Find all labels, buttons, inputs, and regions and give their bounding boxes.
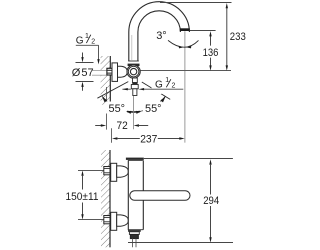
svg-text:233: 233: [230, 31, 246, 43]
svg-text:G: G: [155, 79, 163, 90]
svg-text:294: 294: [203, 195, 219, 207]
svg-text:237: 237: [140, 134, 157, 146]
svg-text:G: G: [76, 35, 84, 46]
svg-text:3°: 3°: [156, 30, 167, 42]
svg-text:2: 2: [172, 82, 176, 89]
svg-text:55°: 55°: [145, 103, 162, 115]
svg-text:Ø: Ø: [72, 67, 81, 79]
svg-text:72: 72: [117, 120, 128, 132]
svg-text:136: 136: [203, 47, 219, 59]
svg-text:150±11: 150±11: [66, 191, 99, 203]
svg-text:55°: 55°: [109, 103, 126, 115]
svg-text:2: 2: [91, 38, 95, 45]
svg-text:57: 57: [81, 67, 93, 79]
